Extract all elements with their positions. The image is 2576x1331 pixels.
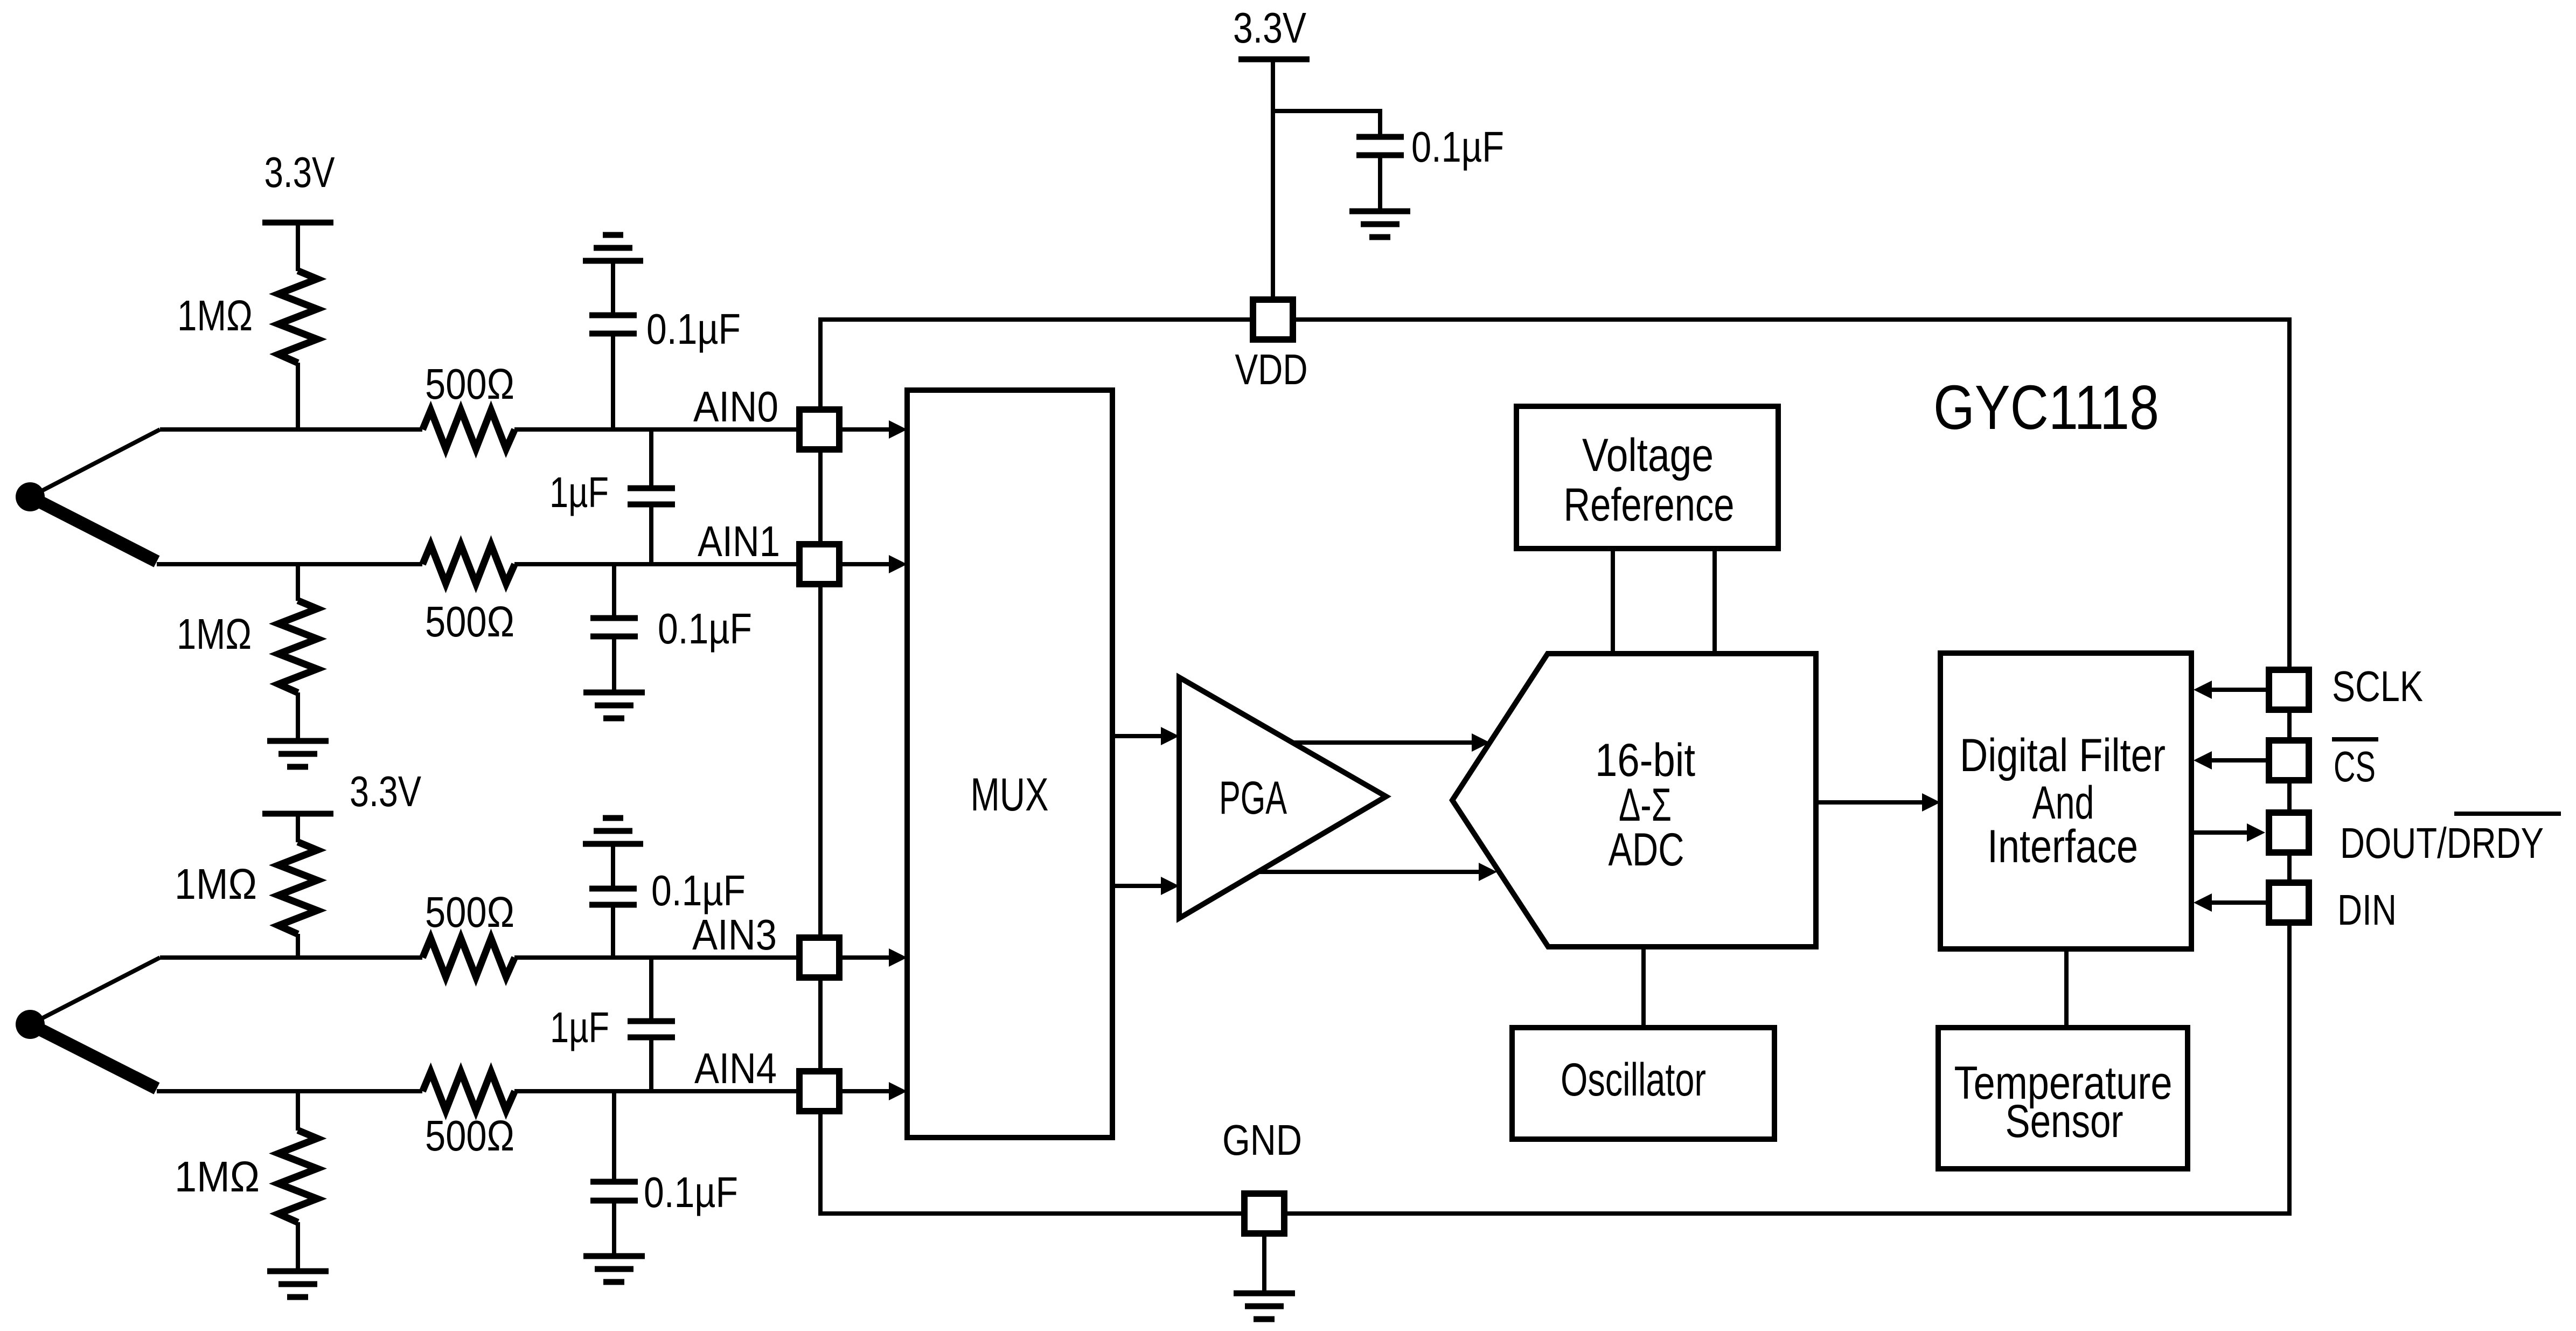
svg-text:500Ω: 500Ω <box>425 888 514 936</box>
svg-text:1MΩ: 1MΩ <box>177 292 253 339</box>
MUX block U1a <box>907 390 1112 1138</box>
wire AIN3 to pin <box>514 955 797 960</box>
svg-text:3.3V: 3.3V <box>1233 4 1307 52</box>
ground (AIN4 pull-down) <box>267 1271 329 1297</box>
svg-text:1MΩ: 1MΩ <box>177 610 252 658</box>
ground (AIN1 pull-down) <box>267 741 329 767</box>
arrow PGA to ADC (lower) <box>1258 863 1497 881</box>
svg-text:AIN0: AIN0 <box>693 383 778 431</box>
resistor R1 1Mohm (AIN0 pull-up) <box>177 223 317 429</box>
svg-text:0.1µF: 0.1µF <box>1411 123 1504 171</box>
thermocouple TC2 junction dot <box>16 1010 45 1039</box>
svg-text:Voltage: Voltage <box>1582 429 1714 481</box>
svg-text:0.1µF: 0.1µF <box>658 605 752 653</box>
arrow PGA to ADC (upper) <box>1293 733 1490 752</box>
wire Voltage Reference to ADC (left) <box>1611 549 1615 654</box>
wire Digital Filter to Temperature Sensor <box>2064 949 2069 1028</box>
svg-text:16-bit: 16-bit <box>1595 734 1695 786</box>
resistor R6 500ohm (AIN3) <box>423 888 515 977</box>
ground (AIN1 filter cap) <box>583 692 645 718</box>
pin SCLK <box>2269 662 2423 710</box>
resistor R3 1Mohm (AIN1 pull-down) <box>177 564 317 740</box>
wire AIN1 to pin <box>514 562 797 566</box>
resistor R7 1Mohm (AIN4 pull-down) <box>175 1091 317 1270</box>
thermocouple TC1 positive leg (thin) <box>30 429 160 497</box>
svg-text:Reference: Reference <box>1564 479 1735 531</box>
arrow AIN3 to MUX <box>842 948 907 967</box>
arrow Digital Filter to DOUT <box>2191 823 2265 842</box>
svg-text:1MΩ: 1MΩ <box>175 860 257 908</box>
wire AIN0 to pin <box>514 427 797 432</box>
thermocouple TC1 negative leg (thick) <box>32 498 157 561</box>
svg-text:DIN: DIN <box>2337 886 2397 934</box>
power net 3.3V (channel 1 bias) <box>262 148 335 223</box>
svg-text:0.1µF: 0.1µF <box>644 1168 738 1216</box>
pin CS (active low) <box>2269 739 2378 791</box>
wire AIN3 input <box>160 955 422 960</box>
svg-text:ADC: ADC <box>1609 824 1684 876</box>
svg-text:MUX: MUX <box>971 769 1049 821</box>
svg-text:CS: CS <box>2334 743 2376 791</box>
svg-text:500Ω: 500Ω <box>425 598 514 646</box>
capacitor C6 0.1uF (VDD decoupling) <box>1356 123 1504 211</box>
wire branch to decoupling cap <box>1273 111 1380 134</box>
svg-text:PGA: PGA <box>1219 772 1287 824</box>
wire AIN4 to pin <box>514 1089 797 1093</box>
svg-text:AIN4: AIN4 <box>694 1044 777 1092</box>
capacitor C2 1uF (AIN0-AIN1 differential) <box>549 429 675 564</box>
thermocouple TC2 positive leg (thin) <box>30 958 160 1024</box>
svg-text:1µF: 1µF <box>549 468 609 516</box>
resistor R2 500ohm (AIN0) <box>423 360 515 449</box>
capacitor C1 0.1uF (AIN0 filter) <box>589 261 741 429</box>
svg-text:0.1µF: 0.1µF <box>651 866 746 914</box>
svg-text:500Ω: 500Ω <box>425 360 514 408</box>
Oscillator block <box>1512 1028 1774 1139</box>
Voltage Reference block <box>1516 406 1778 549</box>
svg-text:VDD: VDD <box>1235 345 1308 393</box>
svg-text:AIN1: AIN1 <box>698 517 780 565</box>
wire AIN1 input <box>157 562 422 566</box>
svg-text:3.3V: 3.3V <box>350 767 422 815</box>
pin AIN1 <box>698 517 839 584</box>
svg-text:Sensor: Sensor <box>2006 1096 2124 1147</box>
arrow DIN to Digital Filter <box>2194 893 2266 912</box>
pin AIN0 <box>693 383 839 449</box>
resistor R8 500ohm (AIN4) <box>423 1072 515 1160</box>
ground (VDD decoupling cap) <box>1349 211 1410 237</box>
svg-text:Oscillator: Oscillator <box>1561 1054 1706 1106</box>
ground (AIN4 filter cap) <box>583 1256 645 1282</box>
svg-text:Δ-Σ: Δ-Σ <box>1619 779 1672 831</box>
ADC block U1c 16-bit delta-sigma <box>1452 654 1816 947</box>
svg-text:SCLK: SCLK <box>2332 662 2423 710</box>
svg-text:Digital Filter: Digital Filter <box>1960 730 2166 781</box>
svg-text:0.1µF: 0.1µF <box>646 305 741 353</box>
arrow AIN4 to MUX <box>842 1082 907 1100</box>
chip outline GYC1118 <box>820 320 2289 1214</box>
arrow ADC to Digital Filter <box>1816 793 1940 812</box>
capacitor C3 0.1uF (AIN1 filter) <box>590 564 752 691</box>
svg-text:AIN3: AIN3 <box>692 911 777 959</box>
svg-text:Interface: Interface <box>1987 821 2138 872</box>
ground (GND pin) <box>1234 1293 1295 1319</box>
Digital Filter And Interface block <box>1940 653 2191 949</box>
wire Voltage Reference to ADC (right) <box>1712 549 1717 654</box>
power net 3.3V (channel 2 bias) <box>262 767 422 815</box>
pin DIN <box>2269 883 2397 934</box>
svg-text:3.3V: 3.3V <box>264 148 336 196</box>
wire AIN4 input <box>157 1089 422 1093</box>
wire VDD supply stem <box>1271 59 1275 297</box>
pin VDD <box>1235 300 1308 393</box>
ground (channel 1 upper 0.1uF, inverted) <box>583 235 643 261</box>
svg-text:GYC1118: GYC1118 <box>1933 372 2159 442</box>
arrow AIN0 to MUX <box>842 420 907 439</box>
svg-text:1MΩ: 1MΩ <box>175 1153 260 1201</box>
wire ADC to Oscillator <box>1641 947 1646 1028</box>
wire AIN0 input <box>160 427 422 432</box>
Temperature Sensor block <box>1938 1028 2188 1169</box>
capacitor C5 1uF (AIN3-AIN4 differential) <box>550 958 675 1091</box>
capacitor C7 0.1uF (AIN4 filter) <box>590 1091 738 1255</box>
svg-text:GND: GND <box>1222 1116 1302 1164</box>
resistor R5 1Mohm (AIN3 pull-up) <box>175 814 317 958</box>
svg-text:1µF: 1µF <box>550 1003 609 1051</box>
arrow MUX to PGA (upper) <box>1112 727 1179 745</box>
wire GND pin to ground <box>1262 1233 1266 1292</box>
pin GND <box>1222 1116 1302 1233</box>
pin AIN4 <box>694 1044 839 1111</box>
power net 3.3V (top, VDD supply) <box>1233 4 1310 59</box>
ground (channel 2 upper 0.1uF, inverted) <box>583 818 643 844</box>
svg-text:500Ω: 500Ω <box>425 1112 514 1160</box>
arrow CS to Digital Filter <box>2194 751 2266 770</box>
thermocouple TC1 junction dot <box>16 482 45 511</box>
capacitor C4 0.1uF (AIN3 filter) <box>589 844 746 958</box>
arrow MUX to PGA (lower) <box>1112 877 1179 895</box>
arrow SCLK to Digital Filter <box>2194 681 2266 699</box>
svg-text:DOUT/DRDY: DOUT/DRDY <box>2340 819 2544 867</box>
pin AIN3 <box>692 911 839 978</box>
resistor R4 500ohm (AIN1) <box>423 545 515 646</box>
arrow AIN1 to MUX <box>842 555 907 573</box>
thermocouple TC2 negative leg (thick) <box>32 1025 157 1089</box>
PGA amplifier U1b <box>1179 677 1386 918</box>
pin DOUT/DRDY <box>2269 813 2561 867</box>
